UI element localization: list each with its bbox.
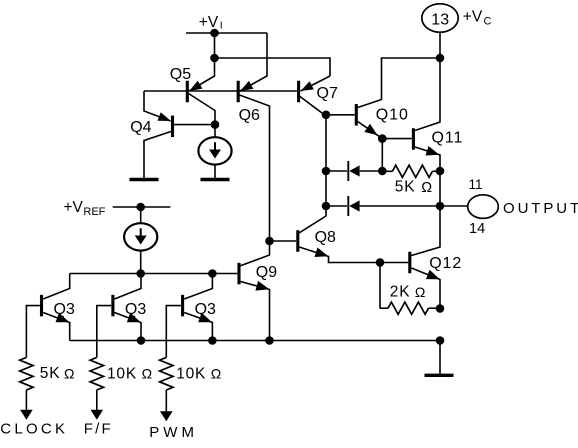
pin 13 terminal +V_C: [422, 4, 458, 32]
node Q5 collector / Q4 base / current source: [211, 120, 220, 129]
wire left rail to D1: [326, 170, 347, 172]
svg-text:Q3: Q3: [195, 301, 216, 318]
wire Q8 emitter: [299, 247, 408, 263]
svg-text:10K: 10K: [107, 365, 137, 382]
wire Q8 collector: [299, 216, 326, 233]
input arrow F/F: [91, 410, 104, 420]
node +V_I rail junction: [210, 29, 219, 38]
emitter arrow Q10: [364, 124, 377, 135]
current source I1: [198, 137, 231, 164]
diode D2: [347, 196, 349, 216]
wire to Q7 emitter: [215, 58, 331, 76]
diode D1: [347, 161, 349, 181]
wire Q11 base: [382, 138, 411, 140]
transistor Q3: [40, 295, 43, 317]
svg-text:Q3: Q3: [125, 301, 146, 318]
resistor R 10K PWM: [160, 357, 173, 390]
node Q6 coll / Q8 base / Q9 coll: [265, 237, 274, 246]
emitter arrow Q6: [240, 81, 253, 91]
wire Q5 collector: [189, 94, 216, 125]
svg-text:+VREF: +VREF: [64, 199, 106, 218]
transistor Q12: [408, 252, 411, 274]
svg-text:OUTPUT: OUTPUT: [503, 200, 578, 217]
emitter arrow Q3: [198, 313, 212, 322]
wire Q12 collector: [411, 206, 440, 256]
svg-text:PWM: PWM: [149, 424, 198, 441]
wire base bus Q5-Q6-Q7: [144, 90, 299, 92]
transistor Q5: [186, 81, 189, 103]
wire PWM lead: [165, 390, 167, 413]
wire Q3 emitter: [43, 313, 70, 341]
wire ground bus: [70, 340, 440, 342]
ground main: [425, 374, 454, 377]
transistor Q3: [111, 295, 114, 317]
wire Q4 collector: [144, 132, 171, 180]
node 5K right / Q11 emitter: [436, 167, 445, 176]
wire Q11 emitter: [415, 147, 440, 171]
input arrow PWM: [160, 411, 173, 421]
svg-text:Ω: Ω: [415, 284, 425, 300]
emitter arrow Q12: [426, 270, 440, 280]
transistor Q9: [237, 263, 240, 285]
wire 2K left lead: [379, 263, 381, 309]
svg-text:14: 14: [469, 221, 485, 237]
emitter arrow Q9: [255, 281, 269, 291]
wire Q4 base: [174, 124, 215, 126]
svg-text:Q11: Q11: [432, 129, 464, 146]
svg-text:5K: 5K: [40, 365, 61, 382]
svg-text:Ω: Ω: [142, 366, 152, 382]
transistor Q4: [171, 116, 174, 138]
wire Q3 collector: [43, 274, 70, 300]
node D1 / 5K left: [378, 167, 387, 176]
node ground bus Q3b: [137, 336, 146, 345]
wire current source 1 bottom lead: [214, 165, 216, 180]
wire Q9 collector: [241, 241, 270, 266]
wire Q10 collector loop: [358, 58, 440, 108]
svg-text:Q6: Q6: [239, 107, 260, 124]
wire +V_REF stub: [113, 206, 171, 208]
node Q7 collector rail / Q10 base: [322, 111, 331, 120]
transistor Q3: [181, 295, 184, 317]
resistor R 5K CLOCK: [20, 357, 33, 390]
wire pin 13 stem: [439, 32, 441, 58]
wire ground stem: [439, 341, 441, 376]
resistor R 10K FF: [90, 357, 103, 390]
transistor Q7: [297, 81, 300, 103]
transistor Q11: [412, 128, 415, 150]
svg-text:CLOCK: CLOCK: [0, 420, 68, 437]
ground current source 1: [201, 178, 230, 181]
wire Q3a base: [26, 306, 39, 358]
wire current source 2 bottom lead: [140, 251, 142, 274]
wire Q8 base: [270, 240, 297, 242]
wire Q9 emitter: [241, 282, 270, 341]
svg-text:Q3: Q3: [54, 301, 75, 318]
node rail-D2: [322, 202, 331, 211]
wire Q3 collector: [115, 274, 142, 300]
svg-text:Q4: Q4: [130, 119, 151, 136]
emitter arrow Q11: [426, 146, 440, 156]
emitter arrow Q3: [56, 313, 70, 322]
wire Q6 collector: [240, 95, 270, 241]
svg-text:+VI: +VI: [199, 14, 223, 32]
emitter arrow Q8: [314, 248, 328, 258]
emitter arrow Q3: [127, 313, 141, 322]
svg-text:13: 13: [431, 11, 449, 28]
emitter arrow Q5: [189, 81, 202, 91]
svg-text:2K: 2K: [390, 284, 411, 301]
wire to output terminal: [440, 205, 468, 207]
wire Q12 emitter: [411, 268, 440, 309]
wire Q4 emitter: [144, 91, 171, 121]
wire Q3 collector: [184, 274, 212, 300]
svg-text:Ω: Ω: [421, 180, 432, 196]
svg-text:F/F: F/F: [84, 421, 113, 438]
svg-text:10K: 10K: [176, 365, 206, 382]
svg-text:Q7: Q7: [317, 85, 338, 102]
wire Q3 emitter: [184, 313, 212, 341]
svg-text:Ω: Ω: [211, 366, 221, 382]
node +V_REF: [136, 203, 145, 212]
svg-text:11: 11: [469, 177, 483, 192]
wire Q3 collector bus: [70, 273, 238, 275]
node output junction: [436, 202, 445, 211]
ground Q4: [130, 178, 159, 181]
svg-text:Q5: Q5: [170, 66, 191, 83]
wire CLOCK lead: [25, 390, 27, 411]
svg-text:Ω: Ω: [64, 365, 74, 381]
svg-text:Q12: Q12: [429, 255, 462, 272]
transistor Q8: [296, 230, 299, 252]
wire current source 1 top lead: [214, 125, 216, 138]
wire Q3 emitter: [115, 313, 142, 341]
wire +V_I rail: [186, 32, 267, 34]
wire Q3c base: [166, 306, 181, 358]
wire Q6 emitter: [240, 33, 267, 91]
node 2K right / Q12 emitter: [436, 304, 445, 313]
node Q12 base / 2K: [376, 258, 385, 267]
node ground bus Q9: [265, 336, 274, 345]
node bus / current source 2: [136, 269, 145, 278]
wire Q7 emitter: [301, 76, 330, 91]
transistor Q6: [237, 81, 240, 103]
emitter arrow Q7: [301, 81, 314, 91]
terminal OUTPUT: [468, 195, 499, 219]
node bus / Q3c collector: [208, 269, 217, 278]
svg-text:Q8: Q8: [315, 229, 336, 246]
node +V_C distribution: [436, 54, 445, 63]
wire Q10 emitter: [358, 122, 383, 139]
wire Q7 collector: [300, 97, 326, 217]
svg-text:Q10: Q10: [376, 106, 409, 123]
wire Q3b base: [97, 306, 111, 358]
node rail-D1: [322, 167, 331, 176]
wire Q5 emitter: [189, 58, 215, 91]
svg-text:Q9: Q9: [256, 264, 277, 281]
input arrow CLOCK: [20, 410, 33, 420]
wire current source 2 top lead: [140, 207, 142, 223]
svg-text:+VC: +VC: [463, 9, 492, 28]
wire Q11 base to 5K node: [381, 139, 383, 171]
wire Q11 collector: [415, 58, 440, 131]
node Q7 branch junction: [210, 54, 219, 63]
emitter arrow Q4: [158, 112, 171, 121]
wire Q5/Q7 emitter drop: [214, 33, 216, 58]
resistor R 5K (collector): [382, 170, 392, 172]
wire F/F lead: [96, 390, 98, 411]
current source I2: [124, 223, 157, 250]
resistor R 2K: [380, 307, 388, 309]
wire 5K to output node: [439, 171, 441, 206]
node Q10 emitter / Q11 base: [378, 134, 387, 143]
wire Q10 base: [326, 114, 355, 116]
wire rail to D2: [326, 205, 347, 207]
node ground bus right: [436, 336, 445, 345]
transistor Q10: [355, 104, 358, 126]
svg-text:5K: 5K: [395, 179, 416, 196]
node ground bus Q3c: [208, 336, 217, 345]
